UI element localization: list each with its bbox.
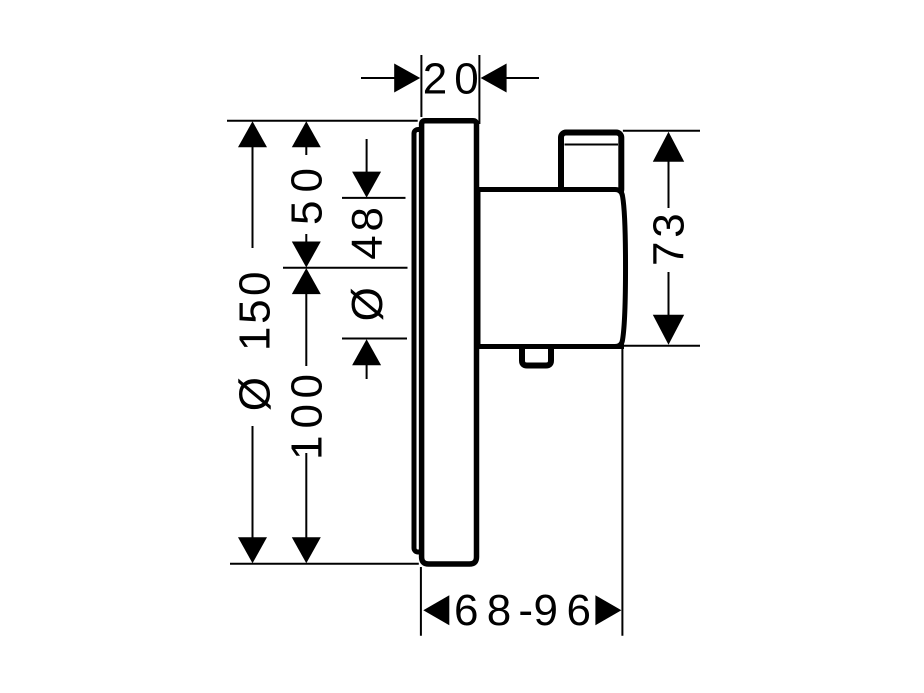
dim 50 bottom arrowhead xyxy=(292,242,321,268)
dim 20 left extension line xyxy=(420,55,422,117)
dim 73 bottom reference line xyxy=(623,345,700,347)
valve body xyxy=(478,190,626,347)
body bottom edge extension xyxy=(614,344,624,349)
svg-text:1: 1 xyxy=(283,436,332,460)
svg-text:6: 6 xyxy=(454,586,478,635)
dim 48 bottom arrowhead xyxy=(352,339,381,365)
dim 68-96 right arrowhead xyxy=(595,595,621,625)
dim 100 upper shaft xyxy=(305,293,307,366)
dim 68-96 left arrowhead xyxy=(423,595,449,625)
dim 50 lower shaft xyxy=(305,234,307,243)
dim 150 top reference line xyxy=(227,120,418,122)
svg-text:1: 1 xyxy=(231,327,280,351)
dim 73 top reference line xyxy=(623,130,700,132)
dim 48 top reference line xyxy=(342,197,406,199)
dim 50 upper shaft xyxy=(305,145,307,155)
dim 50 top arrowhead xyxy=(292,121,321,147)
svg-text:0: 0 xyxy=(283,168,332,192)
dim 150 bottom reference line xyxy=(230,563,419,565)
dim 20 left arrowhead xyxy=(394,64,420,93)
dim 100 bottom arrowhead xyxy=(292,537,321,563)
svg-text:7: 7 xyxy=(645,242,694,266)
dim 20 right extension line xyxy=(478,55,480,124)
svg-text:9: 9 xyxy=(533,586,557,635)
dim 48 bottom reference line xyxy=(342,338,407,340)
svg-text:0: 0 xyxy=(283,374,332,398)
dim 73 lower shaft xyxy=(668,272,670,316)
dim 20 right leader line xyxy=(506,77,539,79)
dim 73 upper shaft xyxy=(668,160,670,208)
svg-text:Ø: Ø xyxy=(231,377,280,411)
dim 20 right arrowhead xyxy=(481,64,507,93)
dim 20 left leader line xyxy=(361,77,396,79)
dim 100 lower shaft xyxy=(305,453,307,540)
dim 50/100 middle reference line xyxy=(283,267,408,269)
dim 100 top arrowhead xyxy=(292,268,321,294)
handle cap seam xyxy=(565,144,619,146)
dim 68-96 left extension line xyxy=(420,567,422,636)
svg-text:0: 0 xyxy=(231,272,280,296)
svg-text:5: 5 xyxy=(283,201,332,225)
svg-text:6: 6 xyxy=(567,586,591,635)
dim 150 upper shaft xyxy=(252,145,254,248)
dim 68-96 right extension line xyxy=(621,348,623,636)
wall flange behind plate xyxy=(414,130,454,553)
dim 73 top arrowhead xyxy=(653,132,684,162)
svg-text:5: 5 xyxy=(231,299,280,323)
dim 150 lower shaft xyxy=(252,426,254,540)
svg-text:4: 4 xyxy=(343,235,392,259)
dim 73 bottom arrowhead xyxy=(653,315,684,345)
dim 48 top arrowhead xyxy=(352,172,381,198)
svg-text:Ø: Ø xyxy=(343,287,392,321)
dim 48 upper shaft xyxy=(366,139,368,173)
service-stop tab under body xyxy=(522,344,551,366)
shut-off handle xyxy=(561,133,621,195)
svg-text:8: 8 xyxy=(343,207,392,231)
svg-text:8: 8 xyxy=(487,586,511,635)
dim 150 bottom arrowhead xyxy=(238,537,267,563)
dim 150 top arrowhead xyxy=(238,121,267,147)
svg-text:0: 0 xyxy=(283,404,332,428)
dim 48 lower shaft xyxy=(366,364,368,379)
svg-text:3: 3 xyxy=(645,213,694,237)
svg-text:0: 0 xyxy=(454,55,478,104)
escutcheon plate xyxy=(422,121,477,564)
svg-text:2: 2 xyxy=(423,55,447,104)
svg-text:-: - xyxy=(518,586,533,635)
